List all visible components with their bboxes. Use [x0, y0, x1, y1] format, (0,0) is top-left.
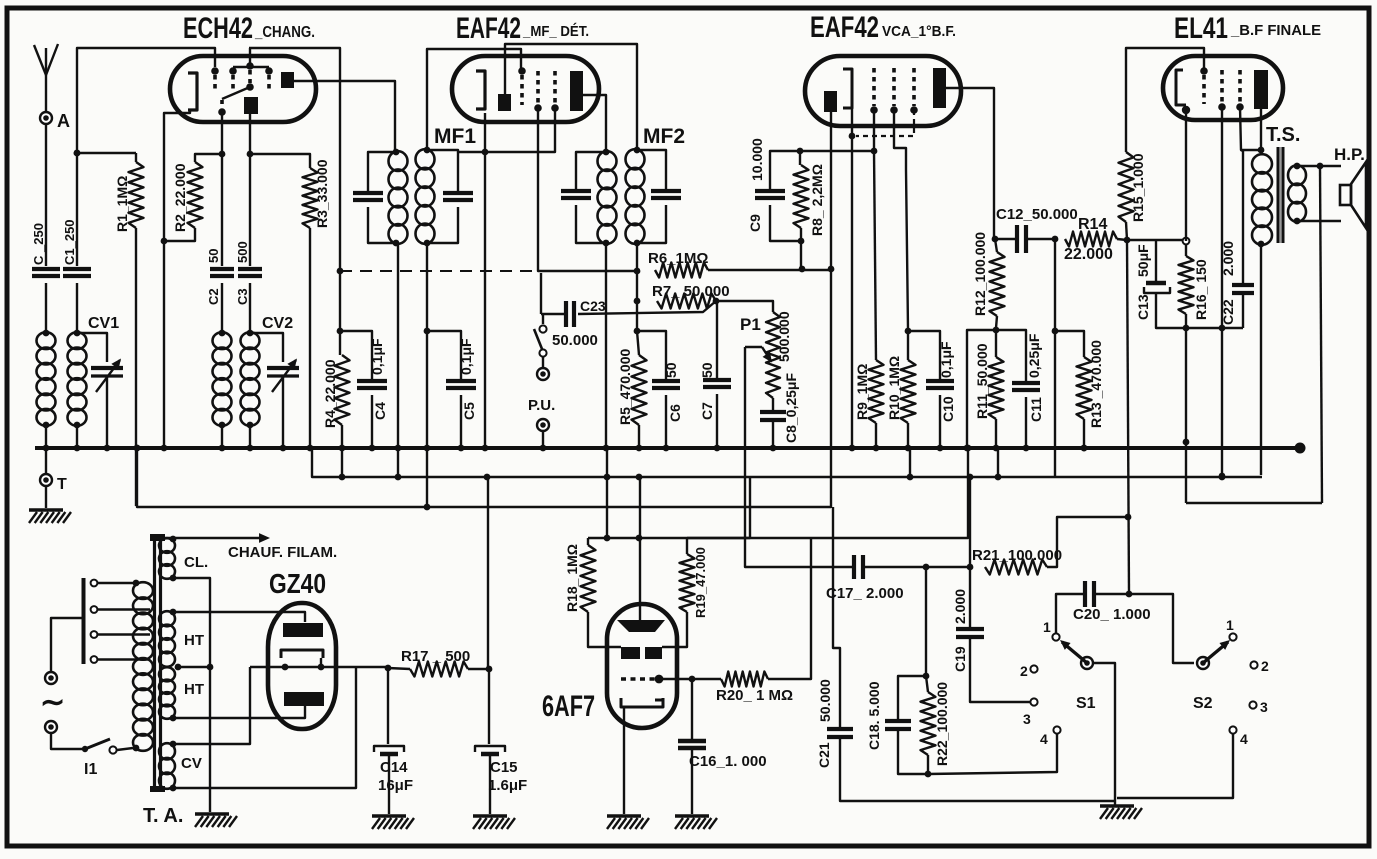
svg-text:S2: S2	[1193, 695, 1213, 712]
wire C9/R8 to g1	[800, 150, 874, 152]
svg-text:R3_33.000: R3_33.000	[314, 159, 330, 228]
svg-text:0,1μF: 0,1μF	[938, 341, 954, 378]
C17 junction column	[925, 567, 927, 676]
6AF7 plate feed	[639, 477, 641, 620]
mains terminal top	[45, 672, 57, 684]
capacitor C23 50.000 pickup	[540, 273, 542, 314]
S1 lever	[1062, 642, 1087, 663]
EAF42-2 cathode	[843, 69, 852, 108]
capacitor C20 1.000	[1056, 594, 1085, 637]
svg-text:4: 4	[1240, 731, 1248, 747]
capacitor C4 0.1uF	[340, 331, 372, 379]
svg-text:500.000: 500.000	[776, 311, 792, 362]
resistor R22 100.000	[926, 676, 928, 692]
svg-text:T.S.: T.S.	[1266, 124, 1300, 146]
svg-text:R18_ 1MΩ: R18_ 1MΩ	[564, 544, 580, 612]
speaker wires	[1297, 165, 1341, 167]
HT line L1	[312, 448, 1262, 477]
resistor R11 50.000	[989, 357, 1004, 419]
svg-text:VCA_1°B.F.: VCA_1°B.F.	[882, 23, 956, 40]
tube EL41	[1163, 56, 1283, 120]
wire R22 bottom to S1 contact 4	[928, 734, 1057, 774]
EL41 g2 pin	[1220, 70, 1224, 103]
EAF42-2 diode lead to AVC	[830, 112, 832, 267]
P1 wiper wire to C17	[745, 347, 853, 567]
svg-text:MF2: MF2	[643, 125, 685, 148]
ECH42 g2-g4 strap	[233, 66, 269, 69]
ECH42 triode anode	[244, 97, 258, 114]
S2 contact 3	[1249, 701, 1256, 708]
capacitor C11 0.25uF	[996, 330, 1026, 381]
svg-text:H.P.: H.P.	[1334, 145, 1365, 164]
svg-text:C3: C3	[235, 288, 250, 305]
capacitor C17 2.000	[852, 555, 856, 579]
MF1 secondary cap	[427, 150, 483, 152]
svg-text:R21_100.000: R21_100.000	[972, 547, 1062, 564]
svg-text:P1: P1	[740, 315, 761, 334]
MF1 primary lead to bus	[397, 243, 399, 448]
svg-text:3: 3	[1260, 699, 1268, 715]
HT bottom wire to GZ40 plate2	[173, 706, 305, 718]
wire cathode junction line	[1127, 239, 1186, 241]
EL41 anode lead	[1260, 109, 1262, 150]
speaker	[1340, 185, 1351, 205]
ECH42 anode wire to MF1	[294, 81, 395, 150]
capacitor C15 16uF	[488, 669, 490, 744]
GZ40 anode 1	[283, 623, 323, 637]
EAF42-2 anode	[933, 68, 946, 108]
wire CV2 top	[250, 333, 283, 362]
capacitor C1 250	[74, 150, 81, 157]
EAF42-2 cathode lead	[851, 108, 853, 134]
svg-text:CV: CV	[181, 755, 202, 772]
svg-text:50: 50	[206, 249, 221, 263]
tube EAF42 VCA 1 BF	[805, 56, 961, 126]
svg-text:R14: R14	[1078, 216, 1107, 233]
svg-text:R8_ 2,2MΩ: R8_ 2,2MΩ	[809, 164, 825, 236]
resistor R8 2.2M	[799, 151, 801, 165]
svg-text:6AF7: 6AF7	[542, 690, 595, 723]
capacitor C22 2.000	[1242, 151, 1244, 284]
svg-text:C5: C5	[461, 402, 477, 420]
svg-text:50: 50	[699, 362, 715, 378]
svg-text:R15_1.000: R15_1.000	[1130, 153, 1146, 222]
terminal PU bottom	[537, 419, 549, 431]
capacitor C14 16uF	[387, 668, 389, 744]
resistor R1 1M	[74, 150, 81, 157]
svg-text:_MF_ DÉT.: _MF_ DÉT.	[522, 23, 589, 40]
capacitor C12 50.000	[995, 238, 1017, 240]
resistor R9 1M	[874, 151, 876, 360]
S2 contact 1	[1229, 633, 1236, 640]
EL41 g2 lead down	[1221, 107, 1223, 328]
EAF42-1 cathode to bus	[484, 152, 486, 448]
svg-text:R5_470.000: R5_470.000	[617, 348, 633, 425]
capacitor C2 50	[221, 157, 223, 266]
voltage selector bar	[82, 578, 86, 664]
ground C16	[675, 814, 709, 817]
EL41 g3 pin	[1238, 70, 1242, 103]
svg-text:R16_ 150: R16_ 150	[1193, 259, 1209, 320]
svg-text:C9: C9	[747, 214, 763, 232]
svg-text:500: 500	[235, 241, 250, 263]
svg-text:R13 _470.000: R13 _470.000	[1088, 340, 1104, 428]
svg-text:22.000: 22.000	[1064, 246, 1113, 263]
svg-text:MF1: MF1	[434, 125, 476, 148]
svg-text:2: 2	[1261, 658, 1269, 674]
svg-text:EAF42: EAF42	[810, 11, 879, 44]
svg-text:C17_ 2.000: C17_ 2.000	[826, 585, 904, 602]
6AF7 target	[617, 620, 665, 632]
EAF42-2 diode plate	[824, 91, 837, 112]
EAF42-1 cathode lead	[484, 113, 486, 149]
svg-text:C8_0,25μF: C8_0,25μF	[783, 373, 799, 443]
svg-text:C11: C11	[1028, 397, 1044, 422]
svg-text:C10: C10	[940, 396, 956, 422]
tube 6AF7	[607, 604, 677, 728]
tube EAF42 MF DET	[452, 56, 599, 122]
svg-text:C2: C2	[206, 288, 221, 305]
ground T	[45, 486, 47, 508]
switch S1	[1081, 657, 1093, 669]
resistor R2 22.000	[195, 154, 222, 162]
svg-text:R20_ 1 MΩ: R20_ 1 MΩ	[716, 687, 793, 704]
svg-text:HT: HT	[184, 681, 204, 698]
EAF42-2 g1 pin	[872, 68, 876, 106]
svg-text:R12_100.000: R12_100.000	[972, 232, 988, 316]
terminal T	[45, 448, 47, 474]
EAF42-1 g2 lead to AVC	[538, 110, 637, 271]
svg-text:CL.: CL.	[184, 554, 208, 571]
EAF42-2 g3 pin	[912, 68, 916, 106]
svg-text:50.000: 50.000	[552, 332, 598, 349]
P1 wiper	[745, 346, 762, 348]
svg-text:16μF: 16μF	[378, 777, 413, 794]
wire R3 bottom to bus	[309, 228, 311, 448]
terminal A	[40, 112, 52, 124]
svg-text:CV1: CV1	[88, 315, 119, 332]
CL bottom to ground column	[173, 578, 210, 812]
svg-text:I1: I1	[84, 761, 97, 778]
EAF42-1 g1 pin	[520, 75, 524, 105]
CV winding	[170, 741, 177, 748]
GZ40 filament bracket	[281, 650, 323, 658]
MF1 secondary coil	[424, 147, 431, 154]
6AF7 deflector plates	[621, 647, 640, 659]
S2 lever	[1203, 642, 1228, 663]
svg-text:R22_100.000: R22_100.000	[934, 682, 950, 766]
svg-text:R4_22.000: R4_22.000	[322, 359, 338, 428]
svg-text:A: A	[57, 111, 70, 131]
ground S1	[1100, 804, 1134, 807]
EL41 cathode	[1176, 70, 1186, 105]
S1 contact 3	[1030, 698, 1037, 705]
CL winding	[170, 536, 177, 543]
svg-text:CHAUF. FILAM.: CHAUF. FILAM.	[228, 544, 337, 561]
svg-text:ECH42: ECH42	[183, 12, 253, 45]
TS primary lead to L1	[1260, 244, 1262, 475]
svg-text:EAF42: EAF42	[456, 12, 521, 45]
antenna	[45, 75, 47, 124]
svg-text:50.000: 50.000	[817, 679, 833, 722]
capacitor C8 0.25uF	[772, 398, 774, 411]
svg-text:R2_22.000: R2_22.000	[172, 163, 188, 232]
ECH42 screen riser to R3 line	[249, 48, 251, 66]
MF1 primary tuning cap	[368, 152, 396, 191]
wire C12 to R13	[1054, 239, 1056, 329]
svg-text:HT: HT	[184, 632, 204, 649]
MF2 primary lead down	[605, 243, 607, 448]
potentiometer P1 500.000	[716, 301, 773, 312]
CV bottom wire riser	[173, 667, 356, 788]
coil L2 antenna secondary	[74, 330, 81, 337]
svg-text:50: 50	[663, 362, 679, 378]
MF1 primary coil	[393, 149, 400, 156]
svg-text:∼: ∼	[40, 686, 65, 719]
MF2 primary cap	[576, 152, 606, 189]
capacitor C6 50	[637, 331, 666, 379]
capacitor C18 5.000	[898, 676, 926, 719]
resistor R16 150	[1183, 238, 1190, 245]
riser to heater line	[606, 448, 608, 538]
wire MF1 secondary top to EAF42 g1	[427, 49, 521, 150]
ground C15	[473, 814, 507, 817]
capacitor C10 0.1uF	[908, 331, 940, 379]
svg-text:1.6μF: 1.6μF	[488, 777, 527, 794]
svg-text:C4: C4	[372, 402, 388, 420]
wire R15 top to EL41 g1	[1126, 48, 1204, 152]
svg-text:R11_50.000: R11_50.000	[974, 343, 990, 419]
ECH42 g4 pin	[213, 75, 217, 90]
svg-text:C19: C19	[952, 646, 968, 672]
EAF42-1 g3 pin	[553, 71, 557, 104]
svg-text:C20_ 1.000: C20_ 1.000	[1073, 606, 1151, 623]
svg-text:C23: C23	[580, 298, 606, 314]
S1 contact 1	[1052, 633, 1059, 640]
MF2 secondary coil	[634, 147, 641, 154]
svg-text:C15: C15	[490, 759, 518, 776]
ECH42 cathode	[188, 73, 197, 110]
C21 bottom to ground line	[840, 737, 1115, 801]
resistor R12 100.000	[992, 236, 999, 243]
EL41 g1 pin	[1202, 75, 1206, 104]
HT center tap	[175, 664, 182, 671]
resistor R15 1.000	[1119, 152, 1134, 222]
speaker feed down	[1320, 166, 1322, 503]
TS core	[1277, 147, 1280, 243]
EAF42-1 cathode-g3 tie	[485, 110, 555, 152]
svg-text:1: 1	[1226, 617, 1234, 633]
TA primary coil	[133, 580, 140, 587]
resistor R4 22.000	[337, 328, 344, 335]
HT winding lower	[159, 667, 175, 681]
resistor R13 470.000	[1055, 331, 1084, 357]
ECH42 cathode wire to R2	[164, 110, 190, 238]
svg-text:4: 4	[1040, 731, 1048, 747]
svg-text:C14: C14	[380, 759, 408, 776]
S2 contact 4 wire	[1117, 734, 1233, 798]
ground for TA center taps	[195, 812, 229, 815]
svg-text:R1_1MΩ: R1_1MΩ	[114, 176, 130, 232]
EAF42-2 g1 lead	[873, 110, 875, 149]
capacitor C16 1.000	[691, 679, 693, 740]
R14 column down to C20	[1127, 240, 1129, 594]
capacitor C9 10.000	[797, 148, 804, 155]
C22 riser	[1241, 150, 1243, 151]
EAF42-1 cathode	[476, 71, 485, 109]
svg-text:C1_250: C1_250	[62, 219, 77, 265]
tube GZ40	[268, 603, 336, 729]
svg-text:R19_47.000: R19_47.000	[693, 547, 708, 618]
ECH42 hexode anode	[281, 72, 294, 88]
svg-text:S1: S1	[1076, 695, 1096, 712]
svg-text:0,1μF: 0,1μF	[458, 338, 474, 375]
svg-text:2.000: 2.000	[952, 589, 968, 624]
EAF42-1 diode riser to MF2 line	[505, 44, 637, 150]
R5 470.000	[637, 331, 639, 355]
svg-text:C _250: C _250	[31, 223, 46, 265]
svg-text:C13: C13	[1135, 294, 1151, 320]
EAF42-2 anode wire	[946, 88, 994, 237]
EAF42-2 g2 pin	[892, 68, 896, 106]
PU switch	[542, 314, 544, 324]
switch I1	[82, 746, 88, 752]
EAF42-2 g2 lead	[894, 110, 908, 329]
resistor R3 33.000	[250, 154, 310, 168]
svg-text:T: T	[57, 476, 67, 493]
wire R12 junction left to bus	[967, 330, 996, 448]
svg-text:_CHANG.: _CHANG.	[254, 24, 315, 41]
C23 lead to R7	[578, 301, 716, 314]
capacitor C13 50uF	[1155, 240, 1157, 281]
capacitor C5 0.1uF	[427, 331, 461, 379]
coil L1 antenna primary	[43, 330, 50, 337]
EAF42-1 anode	[570, 71, 583, 111]
TS primary coil	[1252, 154, 1272, 173]
svg-text:CV2: CV2	[262, 315, 293, 332]
AVC line L2	[137, 448, 831, 507]
EAF42-2 g3 tie to cathode	[856, 110, 914, 136]
oscillator coil L3	[219, 330, 226, 337]
S1 contact 2	[1030, 665, 1037, 672]
svg-text:R10_1MΩ: R10_1MΩ	[886, 356, 902, 420]
MF1 secondary lead	[426, 243, 428, 329]
EL41 anode	[1254, 70, 1268, 109]
S2 contact 2	[1250, 661, 1257, 668]
wire CV1 top	[77, 333, 107, 362]
C15 riser from L1	[487, 477, 489, 669]
svg-text:_B.F FINALE: _B.F FINALE	[1230, 22, 1321, 39]
EL41 cathode column	[1185, 112, 1187, 241]
EAF42-1 diode plate	[498, 94, 511, 111]
TS secondary coil	[1294, 163, 1301, 170]
6AF7 cathode bracket	[621, 698, 663, 707]
svg-text:1: 1	[1043, 619, 1051, 635]
capacitor C 250	[32, 267, 60, 271]
S1 wiper to ground	[1093, 663, 1115, 801]
CV top wire to cathode line	[173, 667, 250, 744]
svg-text:GZ40: GZ40	[269, 568, 326, 599]
oscillator coil L4	[247, 330, 254, 337]
svg-text:50μF: 50μF	[1135, 244, 1151, 277]
S1 contact 4	[1053, 726, 1060, 733]
AVC column to L2	[830, 269, 832, 508]
svg-text:0,25μF: 0,25μF	[1026, 333, 1042, 378]
heater junction line L3	[588, 448, 968, 538]
C19 column from L1	[969, 477, 971, 567]
speaker return line	[1186, 502, 1322, 504]
heater arrow CHAUF FILAM	[150, 537, 264, 539]
selector taps	[91, 580, 98, 587]
capacitor C3 500	[249, 157, 251, 266]
mains wires	[51, 618, 83, 672]
terminal PU top	[537, 368, 549, 380]
capacitor C7 50	[716, 301, 718, 378]
ECH42 triode grid column	[248, 70, 252, 83]
resistor R20 1M	[659, 678, 721, 680]
svg-text:C12_50.000: C12_50.000	[996, 206, 1078, 223]
EAF42-1 g2 pin	[536, 71, 540, 104]
tube ECH42	[170, 56, 316, 122]
MF2 secondary cap	[637, 150, 666, 189]
svg-text:C21: C21	[816, 742, 832, 768]
EL41 g3 lead to anode node	[1240, 107, 1261, 150]
wire ECH42 g4 top line to left column	[77, 48, 215, 150]
resistor R18 1M	[587, 538, 589, 545]
svg-text:3: 3	[1023, 711, 1031, 727]
MF2 primary coil	[603, 149, 610, 156]
resistor R10 1M	[905, 328, 912, 335]
AVC dashed line	[337, 268, 344, 275]
ECH42 triode grid diagonal	[222, 87, 250, 99]
MF2 secondary lead	[636, 243, 638, 331]
wire R1 to AVC line L2	[135, 228, 137, 506]
ECH42 triode anode lead	[249, 114, 251, 151]
resistor R19 47.000	[687, 477, 750, 538]
svg-text:R9_1MΩ: R9_1MΩ	[854, 364, 870, 420]
EAF42-1 anode wire to MF2	[583, 95, 606, 150]
HT top wire to GZ40 plate	[173, 612, 305, 622]
svg-text:C6: C6	[667, 404, 683, 422]
HT winding upper	[170, 609, 177, 616]
svg-text:P.U.: P.U.	[528, 397, 555, 414]
ECH42 osc grid lead	[221, 112, 223, 151]
wire ECH42 top right to R3 column	[249, 48, 340, 268]
GZ40 cathode line	[250, 666, 388, 668]
svg-text:C7: C7	[699, 402, 715, 420]
svg-text:EL41: EL41	[1174, 12, 1228, 45]
TA core	[153, 537, 156, 791]
ground C14	[372, 814, 406, 817]
S2 contact 4	[1229, 726, 1236, 733]
6AF7 grid dashes	[621, 677, 655, 680]
svg-text:T. A.: T. A.	[143, 805, 183, 827]
capacitor C21 50.000	[833, 507, 840, 728]
switch S2	[1197, 657, 1209, 669]
capacitor C19 2.000	[969, 567, 971, 627]
svg-text:10.000: 10.000	[749, 138, 765, 181]
6AF7 cathode to ground	[623, 707, 625, 814]
ground bus	[35, 446, 1300, 450]
mains terminal bottom	[45, 721, 57, 733]
wire antenna to C	[45, 124, 47, 266]
svg-text:2: 2	[1020, 663, 1028, 679]
GZ40 anode 2	[284, 692, 324, 706]
svg-text:C16_1. 000: C16_1. 000	[689, 753, 767, 770]
svg-text:C18. 5.000: C18. 5.000	[866, 681, 882, 750]
svg-text:0,1μF: 0,1μF	[369, 338, 385, 375]
